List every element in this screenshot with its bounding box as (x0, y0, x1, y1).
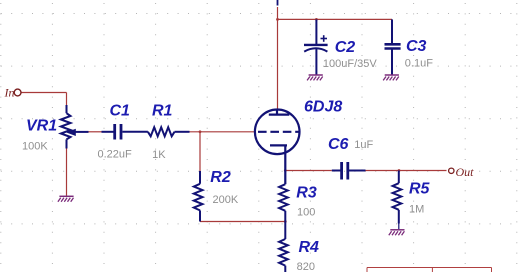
resistor R1 (148, 127, 190, 136)
capacitor C1 (102, 124, 148, 140)
svg-text:100uF/35V: 100uF/35V (323, 58, 377, 70)
wire drop to R2 (199, 132, 201, 171)
svg-text:820: 820 (297, 261, 315, 272)
svg-text:0.22uF: 0.22uF (98, 149, 133, 161)
capacitor C3 (385, 19, 401, 74)
VR1 wiper arrowhead (66, 129, 76, 136)
wire VR1 bottom to ground (66, 149, 68, 196)
triode U1 6DJ8 (255, 110, 300, 185)
svg-text:R3: R3 (296, 184, 317, 201)
svg-text:R4: R4 (299, 239, 320, 256)
wire B+ rail horizontal (278, 18, 393, 20)
svg-text:C6: C6 (328, 136, 349, 153)
junction R2/R3/R4 (284, 220, 287, 223)
title block frame (367, 268, 492, 272)
pin stub at top edge (277, 0, 279, 6)
svg-text:C3: C3 (406, 38, 427, 55)
junction R1/R2/grid (199, 130, 202, 133)
ground below C2 (307, 75, 323, 80)
wire R1 to tube grid (190, 131, 255, 133)
resistor R2 (194, 171, 203, 222)
capacitor C6 (332, 162, 366, 180)
wire VR1 wiper to C1 (88, 131, 102, 133)
ground below C3 (383, 75, 399, 80)
potentiometer VR1 (61, 105, 89, 149)
svg-text:0.1uF: 0.1uF (405, 57, 433, 69)
wire C6 to Out (366, 170, 447, 172)
junction cathode/C6/R3 (284, 169, 287, 172)
wire In vertical drop to VR1 (66, 93, 68, 106)
wire R2 bottom to R3/R4 node (200, 221, 285, 223)
junction R5 on out wire (398, 169, 401, 172)
ground below R5 (389, 230, 405, 235)
svg-text:R1: R1 (152, 103, 173, 120)
resistor R4 (279, 239, 288, 272)
svg-text:1uF: 1uF (354, 139, 373, 151)
port In terminal circle (14, 89, 21, 96)
junction C2 on rail (315, 18, 318, 21)
junction rail/plate (276, 18, 279, 21)
svg-text:6DJ8: 6DJ8 (304, 98, 342, 115)
svg-text:R2: R2 (210, 169, 231, 186)
resistor R5 (393, 171, 402, 230)
svg-text:R5: R5 (409, 180, 431, 197)
wire B+ vertical to plate (277, 7, 279, 110)
svg-text:In: In (4, 86, 15, 100)
svg-text:100: 100 (297, 207, 315, 219)
electrolytic capacitor C2 (304, 19, 328, 74)
svg-text:1K: 1K (152, 149, 166, 161)
wire In horizontal (22, 92, 67, 94)
svg-text:1M: 1M (409, 203, 424, 215)
svg-text:C1: C1 (110, 103, 131, 120)
svg-text:VR1: VR1 (26, 118, 57, 135)
resistor R3 (279, 184, 288, 239)
wire cathode node to C6 (285, 170, 332, 172)
svg-text:Out: Out (456, 165, 475, 179)
svg-text:200K: 200K (213, 194, 239, 206)
port Out terminal circle (449, 168, 454, 173)
svg-text:100K: 100K (22, 141, 48, 153)
ground below VR1 (58, 196, 74, 201)
svg-text:C2: C2 (335, 39, 356, 56)
